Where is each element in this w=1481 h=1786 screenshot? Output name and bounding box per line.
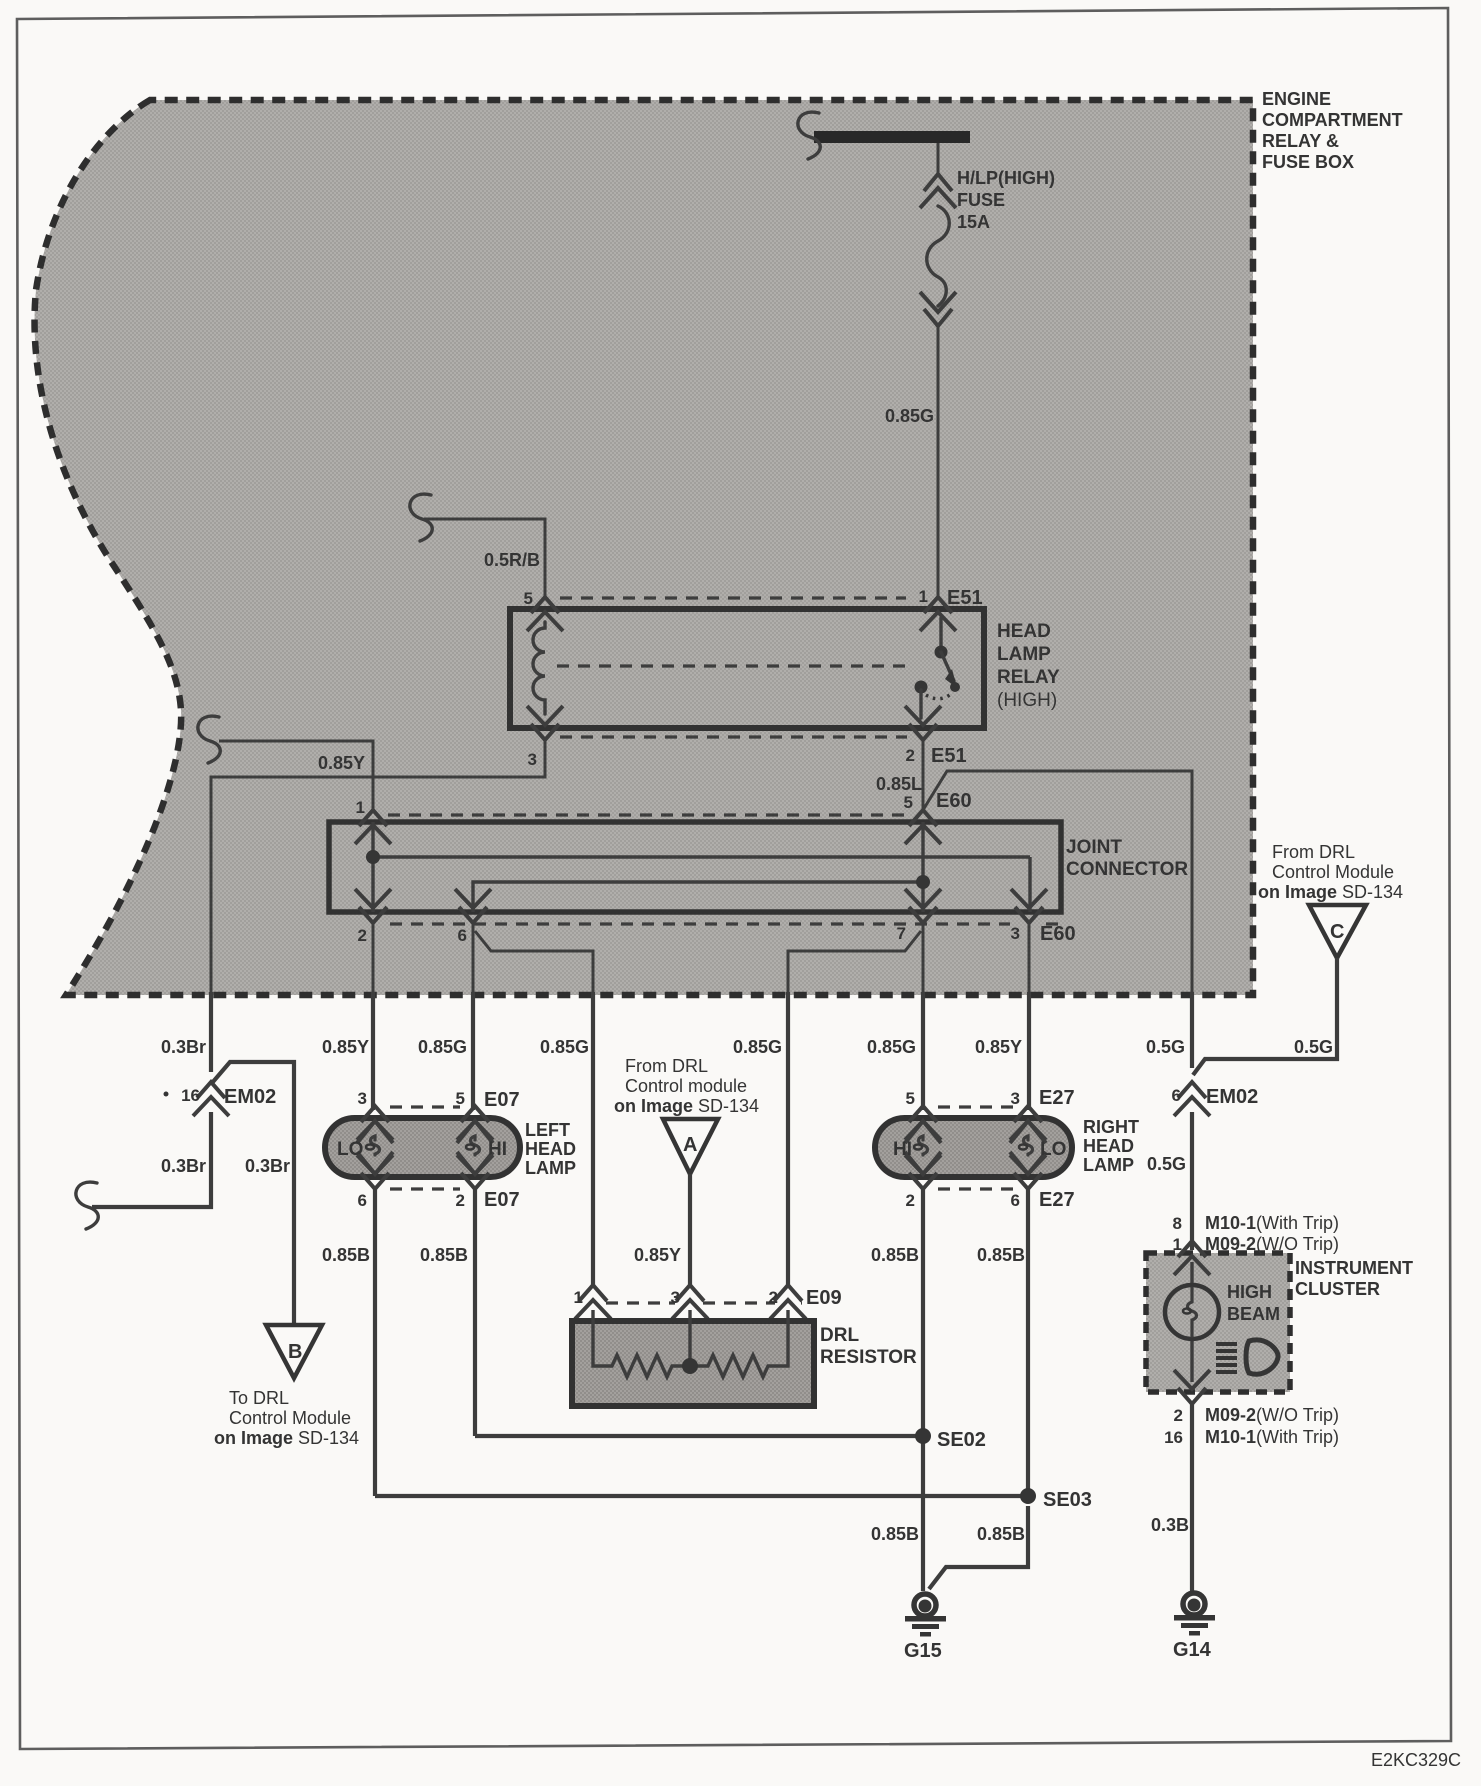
svg-text:LAMP: LAMP (1083, 1155, 1134, 1175)
HEAD LAMP RELAY (HIGH) box (510, 609, 984, 728)
svg-text:LEFT: LEFT (525, 1120, 570, 1140)
svg-text:on Image SD-134: on Image SD-134 (614, 1096, 759, 1116)
svg-text:LAMP: LAMP (525, 1158, 576, 1178)
LO bulb (357, 1121, 393, 1143)
svg-text:0.85B: 0.85B (871, 1524, 919, 1544)
svg-text:0.85B: 0.85B (977, 1524, 1025, 1544)
left lamp E07 top dashed (390, 1105, 460, 1108)
fuse H/LP(HIGH) 15A (920, 174, 956, 208)
wire C to EM02-6 (0.5G) (1193, 958, 1337, 1075)
wire left lamp pin2 to SE02 (0.85B) (473, 1189, 477, 1436)
JC pin 2 (355, 889, 391, 923)
svg-text:16: 16 (181, 1086, 200, 1105)
right lamp E27 top dashed (938, 1105, 1013, 1108)
svg-text:E60: E60 (936, 790, 972, 812)
svg-text:2: 2 (906, 1191, 915, 1210)
svg-text:1: 1 (919, 587, 928, 606)
svg-text:0.85Y: 0.85Y (634, 1245, 681, 1265)
svg-text:LAMP: LAMP (997, 644, 1051, 665)
svg-text:BEAM: BEAM (1227, 1304, 1280, 1324)
left lamp pin 3 connector E07 (357, 1106, 393, 1140)
HI bulb (905, 1121, 941, 1143)
right lamp pin 5 connector E27 (905, 1106, 941, 1140)
cluster output connector M09-2/M10-1 (1174, 1370, 1210, 1404)
LEFT HEAD LAMP (325, 1118, 520, 1177)
svg-text:0.85B: 0.85B (420, 1245, 468, 1265)
svg-text:1: 1 (356, 798, 365, 817)
svg-text:INSTRUMENT: INSTRUMENT (1295, 1258, 1413, 1278)
E09 dashed pin line (606, 1301, 802, 1304)
svg-text:0.5G: 0.5G (1146, 1037, 1185, 1057)
JC pin 1 (355, 810, 391, 844)
svg-text:EM02: EM02 (1206, 1086, 1258, 1108)
svg-text:0.85Y: 0.85Y (322, 1037, 369, 1057)
wire 0.85Y hook to joint connector pin 1 (198, 716, 220, 763)
wire right lamp pin6 to SE03 (0.85B) (1026, 1189, 1030, 1496)
connector EM02 pin 16 (193, 1082, 229, 1116)
svg-text:SE02: SE02 (937, 1429, 986, 1451)
JC internal wire pin5-pin7 with branch to pin6 (473, 822, 923, 912)
svg-text:0.85G: 0.85G (867, 1037, 916, 1057)
triangle connector A (663, 1119, 718, 1174)
svg-text:RIGHT: RIGHT (1083, 1117, 1139, 1137)
svg-text:E51: E51 (931, 745, 967, 767)
wire JC pin7 down to right head lamp pin 5 (0.85G) (922, 922, 925, 995)
svg-text:0.3B: 0.3B (1151, 1515, 1189, 1535)
resistor element 2 (690, 1310, 788, 1377)
RIGHT HEAD LAMP (875, 1118, 1072, 1177)
wire A to E09 pin 3 (0.85Y) (688, 1174, 692, 1288)
svg-text:SE03: SE03 (1043, 1489, 1092, 1511)
svg-text:To DRL: To DRL (229, 1388, 289, 1408)
svg-text:0.85Y: 0.85Y (318, 753, 365, 773)
svg-text:E27: E27 (1039, 1189, 1075, 1211)
svg-text:Control module: Control module (625, 1076, 747, 1096)
svg-text:0.85B: 0.85B (871, 1245, 919, 1265)
svg-text:FUSE BOX: FUSE BOX (1262, 152, 1354, 172)
svg-text:RELAY: RELAY (997, 667, 1060, 688)
relay pin 1 connector E51 (920, 597, 956, 631)
svg-text:3: 3 (671, 1288, 680, 1307)
left lamp pin 5 connector E07 (457, 1106, 493, 1140)
branch wire to EM02-6 (0.5G feed) (923, 771, 1192, 995)
svg-text:0.3Br: 0.3Br (161, 1156, 206, 1176)
left lamp pin 2 connector E07 (457, 1155, 493, 1189)
svg-text:COMPARTMENT: COMPARTMENT (1262, 110, 1403, 130)
svg-text:7: 7 (897, 924, 906, 943)
svg-text:M09-2(W/O Trip): M09-2(W/O Trip) (1205, 1405, 1339, 1425)
JC pin 6 (455, 889, 491, 923)
wire relay pin3 left and down to EM02-16, 0.85Y (211, 738, 545, 995)
triangle connector C (1309, 905, 1366, 958)
svg-text:0.3Br: 0.3Br (161, 1037, 206, 1057)
JOINT CONNECTOR box (329, 822, 1061, 912)
svg-text:0.85B: 0.85B (322, 1245, 370, 1265)
triangle connector B (266, 1325, 322, 1378)
hook at bus bar left end (798, 112, 820, 159)
svg-text:3: 3 (528, 750, 537, 769)
svg-text:M10-1(With Trip): M10-1(With Trip) (1205, 1213, 1339, 1233)
svg-text:E2KC329C: E2KC329C (1371, 1750, 1461, 1770)
svg-text:HEAD: HEAD (997, 621, 1051, 642)
svg-text:From DRL: From DRL (625, 1056, 708, 1076)
E09 pin 1 (575, 1285, 611, 1319)
svg-text:2: 2 (358, 926, 367, 945)
svg-text:Control Module: Control Module (1272, 862, 1394, 882)
wire right lamp pin2 to SE02/G15 (0.85B) (921, 1189, 925, 1591)
svg-text:2: 2 (1174, 1406, 1183, 1425)
E09 pin 3 (672, 1285, 708, 1319)
left lamp E07 bottom dashed (390, 1187, 460, 1190)
svg-text:EM02: EM02 (224, 1086, 276, 1108)
wire fuse to relay pin 1 (937, 143, 940, 176)
ENGINE COMPARTMENT RELAY & FUSE BOX shaded region (35, 100, 1253, 995)
power bus bar (814, 131, 970, 143)
svg-text:CLUSTER: CLUSTER (1295, 1279, 1380, 1299)
svg-text:CONNECTOR: CONNECTOR (1066, 859, 1188, 880)
wire relay pin5 to hook, 0.5R/B (424, 519, 545, 600)
svg-text:E51: E51 (947, 587, 983, 609)
relay pin 3 connector (527, 706, 563, 740)
svg-text:M10-1(With Trip): M10-1(With Trip) (1205, 1427, 1339, 1447)
svg-text:5: 5 (904, 793, 913, 812)
JC internal wire pin1-pin3 (373, 822, 1030, 912)
E09 pin 2 (770, 1285, 806, 1319)
svg-text:on Image SD-134: on Image SD-134 (214, 1428, 359, 1448)
svg-text:2: 2 (769, 1288, 778, 1307)
svg-text:1: 1 (1173, 1235, 1182, 1254)
svg-text:8: 8 (1173, 1214, 1182, 1233)
right lamp pin 3 connector E27 (1010, 1106, 1046, 1140)
svg-text:2: 2 (906, 746, 915, 765)
svg-text:0.85G: 0.85G (885, 406, 934, 426)
DRL RESISTOR box (572, 1321, 814, 1406)
svg-text:E07: E07 (484, 1189, 520, 1211)
ground splice SE03 (375, 1494, 1028, 1498)
svg-text:0.85G: 0.85G (733, 1037, 782, 1057)
wire JC pin2 down to left head lamp pin 3 (0.85Y) (372, 922, 375, 995)
svg-text:E27: E27 (1039, 1087, 1075, 1109)
svg-text:HEAD: HEAD (1083, 1136, 1134, 1156)
svg-text:Control Module: Control Module (229, 1408, 351, 1428)
ground G15 (914, 1594, 936, 1616)
resistor element 1 (593, 1310, 690, 1377)
JC pin 3 E60 (1011, 889, 1047, 923)
svg-text:3: 3 (1011, 1089, 1020, 1108)
branch wire JC pin7 to DRL resistor pin 2 (0.85G) (788, 931, 921, 995)
svg-text:on Image SD-134: on Image SD-134 (1258, 882, 1403, 902)
wire left lamp pin6 to SE03 (0.85B) (373, 1189, 377, 1496)
svg-text:H/LP(HIGH): H/LP(HIGH) (957, 168, 1055, 188)
wire EM02-16 down, left to hook (0.3Br) (92, 1112, 211, 1207)
relay coil (533, 622, 545, 714)
right lamp pin 2 connector E27 (905, 1155, 941, 1189)
JC pin 5 E60 (905, 810, 941, 844)
left lamp pin 6 connector E07 (357, 1155, 393, 1189)
svg-text:G15: G15 (904, 1640, 942, 1662)
svg-text:5: 5 (906, 1089, 915, 1108)
HI bulb (457, 1121, 493, 1143)
svg-text:15A: 15A (957, 212, 990, 232)
svg-text:0.5R/B: 0.5R/B (484, 550, 540, 570)
svg-text:0.5G: 0.5G (1147, 1154, 1186, 1174)
right lamp pin 6 connector E27 (1010, 1155, 1046, 1189)
svg-text:A: A (683, 1134, 697, 1156)
svg-text:0.3Br: 0.3Br (245, 1156, 290, 1176)
wire JC pin3 down to right head lamp pin 3 (0.85Y) (1028, 922, 1031, 995)
svg-text:1: 1 (574, 1288, 583, 1307)
svg-text:(HIGH): (HIGH) (997, 690, 1057, 711)
relay internal link dashed line (557, 664, 905, 667)
ground G14 (1183, 1593, 1205, 1615)
svg-text:HEAD: HEAD (525, 1139, 576, 1159)
svg-text:HIGH: HIGH (1227, 1282, 1272, 1302)
svg-text:5: 5 (524, 589, 533, 608)
wire SE03 leg to ground G15 (929, 1506, 1028, 1589)
INSTRUMENT CLUSTER shaded box (1146, 1253, 1290, 1392)
svg-text:RESISTOR: RESISTOR (820, 1347, 917, 1368)
wire cluster to ground G14 (0.3B) (1190, 1404, 1194, 1591)
LO bulb (1010, 1121, 1046, 1143)
svg-text:0.85Y: 0.85Y (975, 1037, 1022, 1057)
ground splice SE02 (475, 1434, 923, 1438)
high beam icon rays (1216, 1342, 1237, 1346)
svg-text:M09-2(W/O Trip): M09-2(W/O Trip) (1205, 1234, 1339, 1254)
svg-text:3: 3 (1011, 924, 1020, 943)
relay E51 pin 5 dashed line to pin 1 (560, 596, 906, 599)
high beam indicator bulb (1190, 1262, 1193, 1382)
svg-text:0.85L: 0.85L (876, 774, 922, 794)
connector EM02 pin 6 (1174, 1082, 1210, 1116)
svg-text:0.85G: 0.85G (540, 1037, 589, 1057)
svg-text:6: 6 (1011, 1191, 1020, 1210)
svg-text:RELAY &: RELAY & (1262, 131, 1339, 151)
svg-text:0.5G: 0.5G (1294, 1037, 1333, 1057)
JC top dashed pin line (388, 813, 905, 816)
JC pin 7 (905, 889, 941, 923)
right lamp E27 bottom dashed (938, 1187, 1013, 1190)
svg-text:G14: G14 (1173, 1639, 1212, 1661)
relay switch (939, 618, 942, 648)
branch wire JC pin6 to DRL resistor pin 1 (0.85G) (475, 931, 593, 995)
wire JC pin6 down to left head lamp pin 5 (0.85G) (472, 922, 475, 995)
svg-text:FUSE: FUSE (957, 190, 1005, 210)
wire A pin3 into resistor junction (688, 1310, 691, 1366)
svg-text:6: 6 (1172, 1086, 1181, 1105)
wire relay pin2 to joint connector pin 5, 0.85L (922, 738, 925, 812)
wire EM02-6 to instrument cluster (0.5G) (1190, 1112, 1194, 1250)
svg-text:0.85G: 0.85G (418, 1037, 467, 1057)
svg-text:16: 16 (1164, 1428, 1183, 1447)
JC bottom dashed pin line (390, 922, 1058, 925)
svg-text:6: 6 (358, 1191, 367, 1210)
svg-text:3: 3 (358, 1089, 367, 1108)
high beam icon lamp lens (1246, 1340, 1278, 1374)
svg-text:2: 2 (456, 1191, 465, 1210)
svg-text:ENGINE: ENGINE (1262, 89, 1331, 109)
svg-text:C: C (1330, 921, 1344, 943)
svg-text:JOINT: JOINT (1066, 837, 1122, 858)
svg-text:From DRL: From DRL (1272, 842, 1355, 862)
svg-text:6: 6 (458, 926, 467, 945)
relay E51 pin 3 dashed line to pin 2 (560, 735, 907, 738)
svg-text:E60: E60 (1040, 923, 1076, 945)
svg-text:DRL: DRL (820, 1325, 859, 1346)
cluster input connector M10-1/M09-2 (1174, 1241, 1210, 1275)
relay pin 5 connector (527, 597, 563, 631)
svg-text:E07: E07 (484, 1089, 520, 1111)
relay pin 2 connector E51 (905, 706, 941, 740)
svg-text:0.85B: 0.85B (977, 1245, 1025, 1265)
branch wire to triangle B (0.3Br) (212, 1062, 294, 1323)
svg-text:E09: E09 (806, 1287, 842, 1309)
svg-text:B: B (288, 1341, 302, 1363)
svg-text:5: 5 (456, 1089, 465, 1108)
